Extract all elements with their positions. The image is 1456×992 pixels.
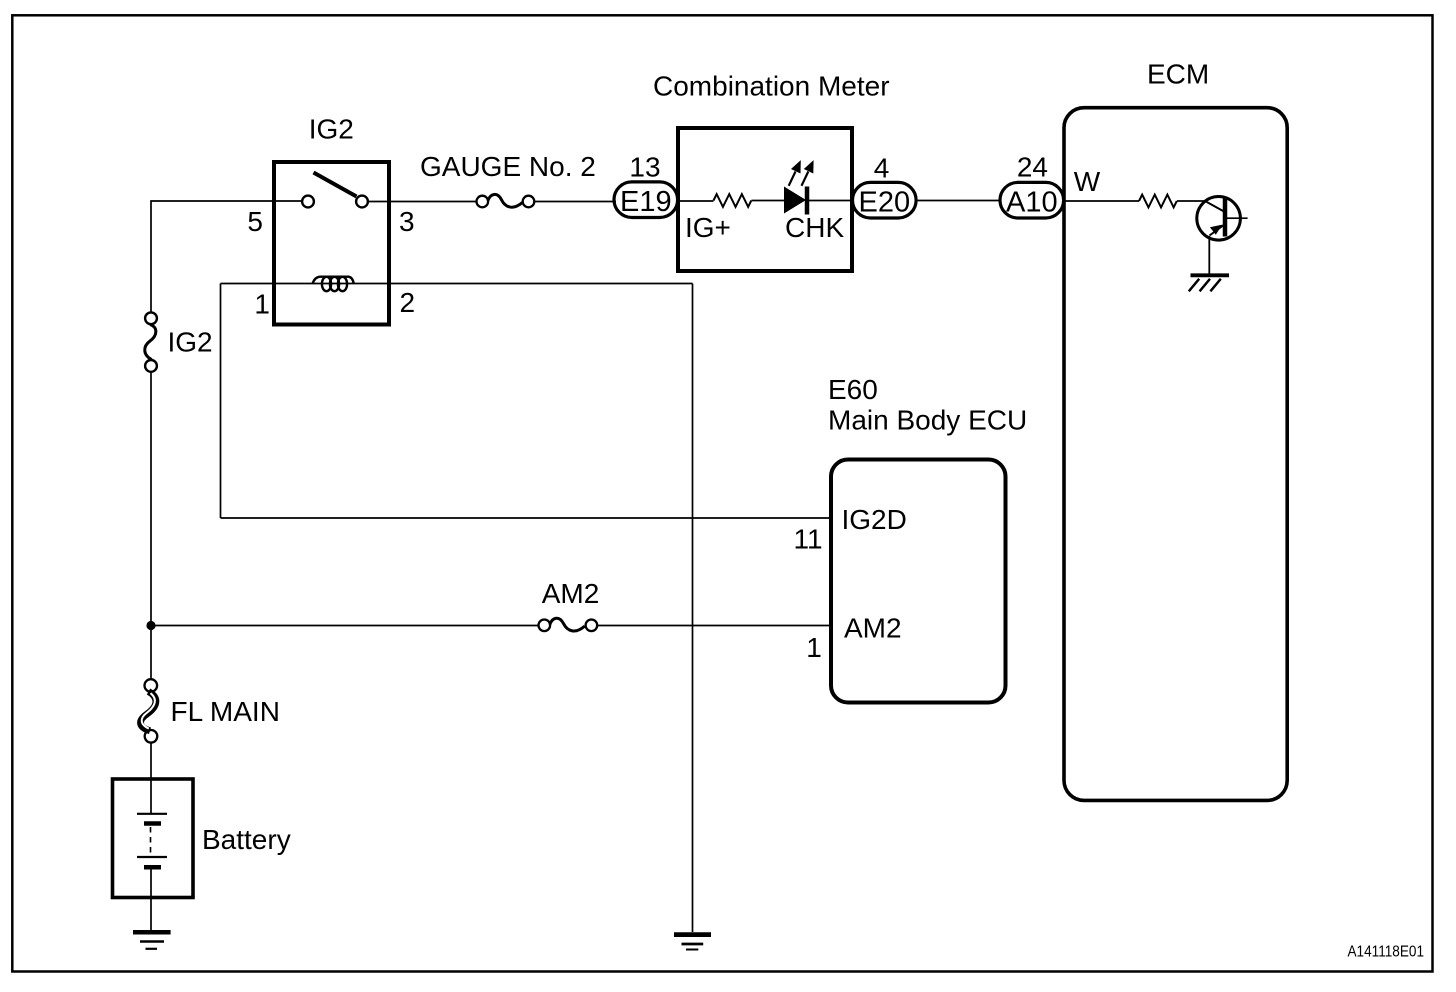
LED CHK diode triangle [784,187,806,214]
svg-text:CHK: CHK [785,212,844,243]
E60 Main Body ECU box [831,460,1006,703]
ECM internal ground [1191,273,1230,277]
svg-text:2: 2 [400,287,416,318]
LED arrow 2 [802,172,809,186]
svg-text:E60: E60 [828,374,878,405]
transistor in ECM [1197,197,1241,241]
svg-text:IG+: IG+ [685,212,731,243]
relay coil L1 [313,277,354,284]
LED cathode bar [805,187,810,215]
resistor in combination meter [714,194,752,207]
svg-text:W: W [1074,166,1101,197]
svg-text:AM2: AM2 [844,613,902,644]
battery plates [137,813,167,815]
resistor in ECM [1139,195,1177,208]
relay switch blade [314,173,357,197]
center vertical wire x692 [692,284,694,933]
svg-text:E19: E19 [620,186,672,218]
svg-text:IG2: IG2 [309,114,354,145]
wire from left vertical to relay pin 5 [151,201,301,312]
svg-text:1: 1 [254,289,270,320]
svg-text:4: 4 [874,153,890,184]
svg-text:13: 13 [629,152,660,183]
relay coil wire pin1 to pin2 [221,283,693,285]
connector E20 [853,182,917,218]
svg-text:3: 3 [399,206,415,237]
fuse GAUGE No. 2 [477,196,489,208]
wire E19 to resistor [678,200,714,202]
connector A10 [1000,182,1064,218]
wire battery to ground [150,870,152,931]
wire A10 into ECM [1064,200,1139,202]
LED arrow 1 [789,172,796,186]
wire LED to box edge [809,200,852,202]
Combination Meter box [678,128,852,271]
transistor collector stub [1227,217,1248,219]
junction node [146,621,155,630]
svg-text:11: 11 [794,524,823,555]
fuse IG2 vertical [145,312,157,324]
svg-text:E20: E20 [858,187,910,219]
left vertical wire x220 from coil down [220,284,222,519]
svg-text:5: 5 [247,206,263,237]
ECM box [1064,108,1287,801]
center ground [674,932,711,937]
svg-text:A10: A10 [1006,187,1058,219]
transistor emitter wire [1208,236,1210,274]
relay IG2 box [274,162,389,325]
IG2D horizontal wire [221,517,832,519]
svg-text:IG2: IG2 [168,327,213,358]
battery box [113,779,194,898]
AM2 horizontal wire [151,625,539,627]
svg-text:ECM: ECM [1147,59,1209,90]
wire resistor to LED [752,200,785,202]
svg-text:24: 24 [1017,151,1048,182]
svg-text:FL MAIN: FL MAIN [171,696,280,727]
svg-text:IG2D: IG2D [842,504,907,535]
wire FL MAIN to battery [150,743,152,813]
svg-text:Combination Meter: Combination Meter [653,71,890,102]
svg-text:A141118E01: A141118E01 [1348,944,1425,961]
relay switch contact left [302,196,314,208]
svg-text:GAUGE No. 2: GAUGE No. 2 [420,151,596,182]
left main vertical wire [150,373,152,679]
svg-text:1: 1 [806,632,822,663]
wire E20 to A10 [916,200,1000,202]
connector E19 [614,182,678,218]
wire resistor to transistor [1177,200,1205,202]
svg-text:AM2: AM2 [542,578,600,609]
svg-text:Battery: Battery [202,824,291,855]
relay switch contact right [356,196,368,208]
wire fuse to connector E19 [534,201,616,203]
battery ground [133,930,171,935]
fuse AM2 [539,620,551,632]
svg-text:Main Body ECU: Main Body ECU [828,405,1027,436]
wire relay pin3 to fuse [369,201,477,203]
fusible link FL MAIN [145,679,158,692]
